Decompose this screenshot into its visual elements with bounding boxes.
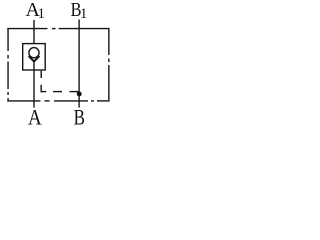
enclosure border bottom (dash-dot) bbox=[7, 100, 109, 102]
check valve seat bbox=[29, 56, 40, 61]
svg-text:1: 1 bbox=[38, 6, 45, 22]
wire port A1 to valve bbox=[33, 20, 35, 44]
check valve body box bbox=[23, 44, 46, 70]
svg-text:1: 1 bbox=[80, 6, 87, 22]
label A1 bbox=[26, 0, 45, 22]
label B1 bbox=[71, 0, 88, 22]
enclosure border left (dash-dot) bbox=[7, 28, 9, 102]
pilot line horizontal (dashed) bbox=[41, 91, 80, 93]
check valve ball bbox=[29, 48, 39, 58]
junction node on B line bbox=[77, 91, 82, 96]
svg-text:B: B bbox=[74, 107, 85, 130]
wire port B1 to port B bbox=[78, 20, 80, 108]
pilot line vertical (dashed) bbox=[40, 71, 42, 93]
svg-text:A: A bbox=[28, 106, 42, 129]
wire valve to port A bbox=[33, 61, 35, 107]
enclosure border right (dash-dot) bbox=[108, 28, 110, 102]
enclosure border top (dash-dot) bbox=[7, 28, 109, 30]
